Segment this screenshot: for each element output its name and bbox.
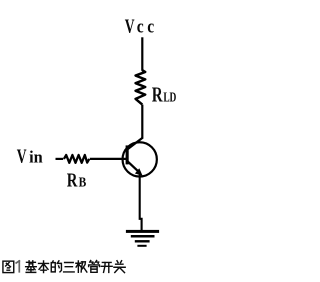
wire Vcc to RLD: [141, 37, 143, 71]
caption char 基: [26, 261, 37, 273]
wire RLD to collector: [141, 105, 143, 139]
caption char 开: [101, 262, 112, 272]
svg-text:LD: LD: [163, 90, 176, 105]
ground: [126, 230, 159, 247]
wire Vin to RB: [56, 158, 64, 160]
svg-text:R: R: [67, 168, 79, 191]
caption char 图: [3, 261, 14, 272]
label RLD: [152, 83, 176, 106]
label RB: [67, 168, 86, 191]
wire emitter to ground: [140, 175, 142, 231]
wire RB to base: [90, 158, 127, 160]
caption char 关: [114, 261, 125, 273]
caption: 图1 基本的三极管开关: [3, 261, 125, 273]
node Vcc label: [125, 15, 155, 37]
svg-text:c: c: [137, 16, 144, 37]
caption digit 1: [16, 261, 19, 272]
resistor RLD: [136, 70, 146, 104]
node Vin label: [17, 145, 43, 167]
caption char 管: [89, 261, 100, 273]
resistor RB: [64, 155, 89, 163]
svg-text:V: V: [125, 15, 135, 37]
svg-text:V: V: [17, 145, 27, 167]
caption char 本: [39, 261, 49, 273]
caption char 极: [76, 261, 87, 272]
svg-text:c: c: [147, 16, 154, 37]
svg-text:in: in: [29, 147, 43, 166]
svg-text:R: R: [152, 83, 164, 106]
svg-text:B: B: [79, 175, 87, 190]
caption char 的: [51, 261, 61, 272]
caption char 三: [64, 263, 75, 272]
transistor Q1: [123, 138, 157, 177]
